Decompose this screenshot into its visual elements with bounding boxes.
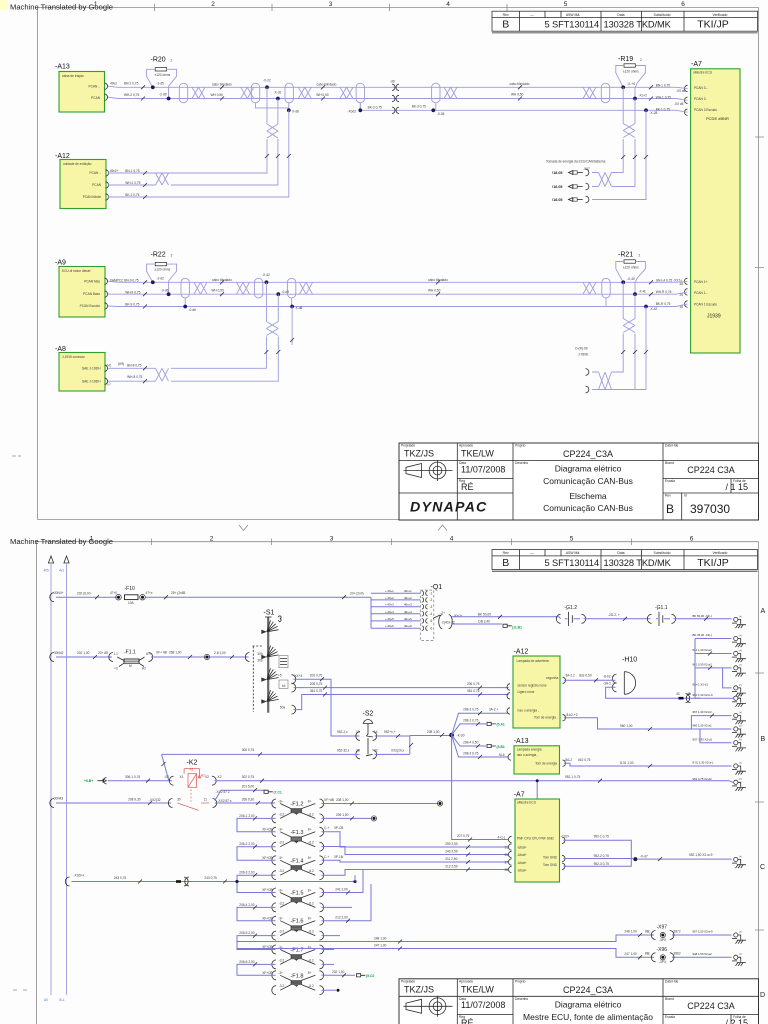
- ground terminal 766: [734, 764, 738, 768]
- svg-text:nao o anergia ,: nao o anergia ,: [518, 709, 539, 713]
- fuse F1.3: [272, 827, 324, 851]
- svg-text:-F1.8: -F1.8: [290, 973, 303, 979]
- svg-text:D: D: [760, 992, 765, 999]
- svg-text:-1: -1: [430, 591, 433, 595]
- svg-text:ASW Mã.: ASW Mã.: [566, 551, 580, 555]
- svg-text:SAE J-1939-/: SAE J-1939-/: [82, 367, 101, 371]
- svg-text:-R19: -R19: [618, 56, 633, 63]
- svg-text:3A-2.2: 3A-2.2: [565, 674, 575, 678]
- svg-text:(5.A1: (5.A1: [497, 723, 505, 727]
- svg-text:PCAN ..: PCAN ..: [88, 85, 100, 89]
- svg-text:-X2: -X2: [217, 775, 222, 779]
- svg-text:130328 TKD/MK: 130328 TKD/MK: [604, 558, 672, 568]
- wire S1-202 to S2: [294, 679, 360, 736]
- svg-text:-XX2 87 2: -XX2 87 2: [216, 790, 230, 794]
- wire R19 drop H: [612, 87, 623, 172]
- svg-text:/ 1 15: / 1 15: [725, 482, 748, 492]
- svg-text:30N42: 30N42: [54, 651, 64, 655]
- svg-text:208-3 0,75: 208-3 0,75: [463, 752, 478, 756]
- svg-text:405: 405: [44, 569, 50, 573]
- svg-text:Tom de energia .: Tom de energia .: [534, 716, 558, 720]
- svg-text:948 1,50 X2-a2: 948 1,50 X2-a2: [693, 952, 713, 956]
- svg-text:1: 1: [94, 1, 98, 8]
- wire F10 to Q1: [145, 596, 371, 598]
- svg-text:+3: +3: [114, 667, 118, 671]
- ground terminal 620: [734, 617, 738, 621]
- svg-text:CP224 C3A: CP224 C3A: [687, 465, 735, 475]
- svg-text:caixa de traçáo: caixa de traçáo: [62, 74, 84, 78]
- svg-text:-2-d9: -2-d9: [159, 93, 167, 97]
- svg-text:47+x: 47+x: [146, 591, 153, 595]
- wire F1.1 to S1: [151, 656, 249, 658]
- ground terminal 654: [734, 651, 738, 655]
- svg-text:WH-2 0,75: WH-2 0,75: [124, 93, 139, 97]
- ground terminal 698: [734, 696, 738, 700]
- svg-text:+5: +5: [278, 674, 282, 678]
- inline connector X2 pass-through: [392, 84, 399, 113]
- svg-text:-3.2: -3.2: [279, 869, 285, 873]
- svg-text:WH-R 0,76: WH-R 0,76: [656, 290, 672, 294]
- fuse F1.7: [272, 945, 324, 969]
- svg-text:CP224_C3A: CP224_C3A: [563, 449, 613, 459]
- svg-text:XF+ 4B: XF+ 4B: [156, 651, 167, 655]
- wire H10 return to ground: [606, 687, 733, 698]
- svg-text:206-5 2,00: 206-5 2,00: [239, 931, 254, 935]
- wire 243 feeder: [65, 877, 69, 886]
- cable sleeve 3 with shield tail: [356, 83, 364, 103]
- svg-text:(x): (x): [739, 712, 742, 714]
- svg-text:TKZ/JS: TKZ/JS: [404, 984, 434, 994]
- wire K2 coil out (302): [215, 781, 734, 799]
- svg-text:268 1,00: 268 1,00: [169, 651, 182, 655]
- svg-text:-8-b2-+2: -8-b2-+2: [565, 713, 577, 717]
- svg-text:-3.2: -3.2: [279, 901, 285, 905]
- svg-text:40x+6: 40x+6: [404, 624, 412, 628]
- svg-text:Diagrama elétrico: Diagrama elétrico: [555, 464, 622, 474]
- svg-text:TKI/JP: TKI/JP: [697, 19, 729, 31]
- wire F1.2 outputs: [322, 804, 439, 819]
- ground terminal 638: [734, 636, 738, 640]
- svg-text:-X-42: -X-42: [650, 307, 658, 311]
- wire J1939 shield: [108, 304, 688, 307]
- wire F1.3 outputs to A7: [322, 832, 353, 855]
- wire G1.2 to G1.1: [584, 618, 651, 620]
- svg-text:BN-2 0,75: BN-2 0,75: [124, 81, 139, 85]
- svg-text:GN-L4 0,75 -XX7+: GN-L4 0,75 -XX7+: [656, 279, 682, 283]
- battery G1.2: [556, 605, 585, 626]
- svg-text:TKE/LW: TKE/LW: [461, 984, 494, 994]
- svg-text:-3PX: -3PX: [659, 938, 667, 942]
- svg-text:Aprovado: Aprovado: [459, 979, 473, 983]
- svg-text:-Xc+2: -Xc+2: [639, 94, 648, 98]
- wire CAN1-H bus: [108, 86, 688, 88]
- revision header table page 1: [492, 11, 758, 33]
- svg-text:sensor registro none: sensor registro none: [518, 683, 547, 687]
- wire R21 drop H: [612, 282, 623, 372]
- ECU A7 (J1939 gateway): [679, 61, 740, 353]
- vertical twist A8 drop: [266, 322, 278, 336]
- svg-text:PCAN Mas: PCAN Mas: [84, 279, 100, 283]
- svg-text:WH-9 0,75: WH-9 0,75: [125, 290, 140, 294]
- ref 7.C1: [264, 790, 273, 793]
- node 2-d2 junction: [151, 280, 155, 284]
- svg-text:3672: 3672: [674, 929, 681, 933]
- svg-text:-XG5+x: -XG5+x: [74, 873, 85, 877]
- svg-text:-0-d6: -0-d6: [189, 308, 197, 312]
- svg-text:-2-d2: -2-d2: [156, 276, 164, 280]
- svg-text:40x+4: 40x+4: [404, 610, 412, 614]
- twist bus2 seg1: [194, 282, 207, 294]
- ground terminal 688: [734, 686, 738, 690]
- svg-text:-A8: -A8: [55, 346, 66, 353]
- wire node to A13 pin: [452, 735, 509, 757]
- twist bus2 seg2: [237, 282, 250, 294]
- Dynapac roller logo: [404, 996, 453, 1017]
- svg-text:A0: A0: [44, 998, 48, 1002]
- svg-text:(x): (x): [739, 635, 742, 637]
- svg-text:unidade de exibição: unidade de exibição: [63, 162, 92, 166]
- svg-text:!18.05: !18.05: [552, 171, 562, 175]
- wire 30N43 row (K2 contact): [50, 799, 54, 808]
- svg-text:Projeto: Projeto: [515, 444, 526, 448]
- svg-text:952-1 0,75: 952-1 0,75: [594, 834, 609, 838]
- svg-text:WH 0,50: WH 0,50: [511, 93, 524, 97]
- svg-text:-3.2: -3.2: [279, 958, 285, 962]
- svg-text:(x): (x): [739, 931, 742, 933]
- svg-text:-H10: -H10: [622, 657, 637, 664]
- svg-text:(11.B1: (11.B1: [512, 625, 522, 629]
- svg-text:-6.2: -6.2: [308, 958, 314, 962]
- node X-22 on CAN1-H: [265, 85, 269, 89]
- ECU A13 power module: [508, 738, 566, 774]
- node X-42 junction H: [265, 280, 269, 284]
- svg-text:+.40+1: +.40+1: [385, 589, 394, 593]
- svg-text:C-+: C-+: [324, 826, 329, 830]
- svg-text:4+1-(: 4+1-(: [497, 836, 505, 840]
- wire shield drop bus2: [291, 307, 293, 346]
- bus riser 405: [50, 564, 52, 995]
- svg-text:-6.2: -6.2: [308, 869, 314, 873]
- switch S1 (ignition): [245, 610, 302, 715]
- svg-text:cabo blindado: cabo blindado: [428, 278, 448, 282]
- node X+2 junction: [633, 97, 637, 101]
- svg-text:-4: -4: [430, 612, 433, 616]
- svg-text:-R22: -R22: [151, 252, 166, 259]
- svg-text:-X-4L: -X-4L: [639, 289, 647, 293]
- svg-text:(x): (x): [739, 762, 742, 764]
- fuse F1.1: [109, 650, 153, 671]
- svg-text:-X-d7: -X-d7: [640, 854, 648, 858]
- svg-text:952-1 0,75: 952-1 0,75: [565, 775, 580, 779]
- svg-text:3862: 3862: [674, 952, 681, 956]
- Dynapac roller logo: [404, 460, 453, 481]
- svg-text:3: 3: [171, 254, 173, 258]
- svg-text:243 0,75: 243 0,75: [204, 876, 217, 880]
- svg-text:-3.2: -3.2: [279, 812, 285, 816]
- svg-text:PCAN Escudo: PCAN Escudo: [80, 304, 101, 308]
- takeoff stub row1: [586, 369, 589, 376]
- svg-text:248 1,00: 248 1,00: [624, 930, 637, 934]
- wire node to ref 5.B1: [452, 735, 486, 746]
- fuse F1.8: [272, 971, 324, 995]
- svg-text:37: 37: [505, 860, 509, 864]
- svg-text:-A13: -A13: [55, 64, 70, 71]
- svg-text:9X7 1,30 X2-d1: 9X7 1,30 X2-d1: [693, 737, 713, 741]
- svg-text:206 0,75: 206 0,75: [310, 682, 323, 686]
- ECU A8: [55, 346, 111, 391]
- svg-text:B: B: [502, 19, 509, 31]
- svg-text:+.40+6: +.40+6: [385, 624, 394, 628]
- ECU A7 master: [508, 791, 569, 882]
- svg-text:-2D-2- +: -2D-2- +: [608, 613, 620, 617]
- switch Q1 (battery disconnect): [420, 584, 442, 641]
- svg-text:/ 2 15: / 2 15: [725, 1018, 748, 1024]
- wire 248 to X97: [237, 935, 732, 942]
- svg-text:-d9: -d9: [390, 80, 395, 84]
- cable sleeve connector (A13 segment): [179, 83, 187, 103]
- svg-text:38: 38: [505, 868, 509, 872]
- svg-text:-3+: -3+: [278, 888, 283, 892]
- svg-text:(x): (x): [739, 695, 742, 697]
- svg-text:cabo blindado: cabo blindado: [510, 82, 530, 86]
- horn H10: [612, 657, 637, 695]
- svg-text:(H): (H): [107, 364, 111, 368]
- revision header table page 2: [492, 550, 758, 572]
- svg-text:2: 2: [210, 536, 214, 543]
- svg-text:-0-d6: -0-d6: [161, 289, 169, 293]
- page 1 sheet frame: [0, 0, 764, 520]
- svg-text:±120 ohms: ±120 ohms: [155, 73, 171, 77]
- svg-text:211 2,50: 211 2,50: [445, 857, 457, 861]
- fuse F10: [110, 586, 153, 605]
- svg-text:-A7: -A7: [514, 791, 525, 798]
- svg-text:Verificado: Verificado: [713, 551, 728, 555]
- svg-text:-X-22: -X-22: [263, 79, 271, 83]
- svg-text:361 0,76: 361 0,76: [467, 689, 480, 693]
- svg-text:50a: 50a: [280, 706, 286, 710]
- node X-d8 shield bus2: [290, 305, 294, 309]
- svg-text:DYNAPAC: DYNAPAC: [410, 500, 488, 516]
- svg-text:±120 ohms: ±120 ohms: [155, 268, 171, 272]
- wires Q1 inputs: [371, 593, 420, 628]
- svg-text:(L): (L): [107, 382, 111, 386]
- svg-text:49v2+: 49v2+: [110, 169, 119, 173]
- cable sleeve bus2 seg3 with tail: [287, 278, 295, 298]
- svg-text:48: 48: [687, 692, 691, 696]
- node junction L: [167, 292, 171, 296]
- svg-text:TKI/JP: TKI/JP: [697, 557, 729, 569]
- svg-text:-6.2: -6.2: [308, 984, 314, 988]
- svg-text:WH 0,50: WH 0,50: [211, 289, 224, 293]
- svg-text:247 1,00: 247 1,00: [374, 944, 387, 948]
- svg-text:X-d8: X-d8: [292, 109, 299, 113]
- svg-text:BK-3 0,75: BK-3 0,75: [412, 105, 426, 109]
- ground terminal 668: [734, 666, 738, 670]
- svg-text:BK-R 0,75: BK-R 0,75: [656, 302, 671, 306]
- svg-text:#10 0,75: #10 0,75: [578, 758, 591, 762]
- svg-text:-A13: -A13: [514, 738, 529, 745]
- ground terminal 716: [734, 714, 738, 718]
- svg-text:-6.2: -6.2: [308, 930, 314, 934]
- svg-text:243 0,75: 243 0,75: [114, 876, 127, 880]
- svg-text:397030: 397030: [690, 502, 730, 516]
- battery G1.1: [647, 605, 675, 626]
- svg-text:X-d8: X-d8: [296, 306, 303, 310]
- fuse F1.4: [272, 856, 324, 880]
- svg-text:!18.05: !18.05: [552, 185, 562, 189]
- svg-text:40x+5: 40x+5: [404, 617, 412, 621]
- cable sleeve 5 (R19 side): [601, 83, 609, 103]
- svg-text:206-2 2,00: 206-2 2,00: [239, 842, 254, 846]
- svg-text:3: 3: [329, 1, 333, 8]
- svg-text:Rev: Rev: [503, 551, 509, 555]
- svg-text:957 1,30 X2-b2: 957 1,30 X2-b2: [693, 710, 713, 714]
- svg-text:WH 0,50: WH 0,50: [211, 93, 224, 97]
- svg-text:(x): (x): [739, 779, 742, 781]
- svg-text:Machine Translated by Google: Machine Translated by Google: [10, 3, 113, 12]
- wire J1939-L drop to A8: [171, 294, 278, 381]
- wire node to A7 pin 1: [452, 735, 509, 839]
- svg-text:(x): (x): [739, 650, 742, 652]
- svg-text:C-+: C-+: [324, 855, 329, 859]
- wire 30N4+ row (F10 feed): [50, 593, 54, 602]
- node X-40 junction: [621, 280, 625, 284]
- ground terminal 957: [734, 955, 738, 959]
- svg-text:960 1,30 X2-b-9: 960 1,30 X2-b-9: [693, 693, 714, 697]
- svg-text:-X-42: -X-42: [262, 273, 270, 277]
- svg-text:208-4 0,50: 208-4 0,50: [463, 741, 478, 745]
- svg-text:b4: b4: [282, 684, 286, 688]
- twisted pair marks takeoff: [599, 173, 612, 187]
- node K-30 distribution: [449, 733, 454, 738]
- wire R21 drop shield: [592, 307, 646, 390]
- wire node to ref 5.A1: [452, 724, 486, 735]
- node X-4L junction: [633, 292, 637, 296]
- resistor R21 (120 ohm terminator): [616, 252, 646, 295]
- wire F1.4 outputs to A7: [322, 860, 353, 875]
- svg-text:Rev: Rev: [503, 13, 509, 17]
- svg-text:X2: X2: [205, 775, 209, 779]
- svg-text:PCAN 3-..: PCAN 3-..: [694, 86, 708, 90]
- svg-text:uMestre ECU: uMestre ECU: [517, 801, 537, 805]
- svg-text:201 5,00: 201 5,00: [242, 785, 255, 789]
- K2 contact blade (red): [168, 799, 172, 808]
- svg-text:212 2,50: 212 2,50: [445, 865, 458, 869]
- resistor R22 (120 ohm terminator): [147, 252, 177, 295]
- svg-text:30: 30: [177, 798, 181, 802]
- svg-text:M: M: [129, 664, 132, 668]
- svg-text:-X07: -X07: [583, 167, 590, 171]
- svg-text:2: 2: [640, 58, 642, 62]
- node X-d5 / X-d9 junctions under R20: [151, 85, 155, 89]
- svg-text:8+: 8+: [308, 971, 312, 975]
- column numbers page 1: [94, 1, 685, 8]
- svg-text:PCAN: PCAN: [91, 96, 101, 100]
- cable sleeve 4: [432, 83, 440, 103]
- svg-text:-F1.1: -F1.1: [124, 650, 136, 656]
- relay K2 coil (red): [184, 760, 205, 802]
- wire node to A12 pin3: [452, 713, 509, 735]
- svg-text:Escala: Escala: [665, 479, 675, 483]
- svg-text:-3.2: -3.2: [279, 984, 285, 988]
- svg-text:WH 0,50: WH 0,50: [428, 288, 441, 292]
- svg-text:Projeto: Projeto: [515, 979, 526, 983]
- svg-text:208-1 0,75: 208-1 0,75: [463, 719, 478, 723]
- svg-text:952-2 0,75: 952-2 0,75: [594, 854, 609, 858]
- svg-text:-F1.5: -F1.5: [290, 891, 303, 897]
- svg-text:-A12: -A12: [514, 649, 529, 656]
- svg-text:-X96: -X96: [657, 947, 668, 953]
- wire R19 drop shield: [592, 110, 646, 199]
- svg-text:247 1,00: 247 1,00: [624, 952, 637, 956]
- svg-text:8+: 8+: [308, 856, 312, 860]
- svg-text:cabo blindado: cabo blindado: [212, 278, 232, 282]
- svg-text:208 1,00: 208 1,00: [427, 730, 440, 734]
- svg-text:Elschema: Elschema: [569, 491, 607, 501]
- svg-text:Comunicação CAN-Bus: Comunicação CAN-Bus: [543, 476, 633, 486]
- svg-text:-F1.3: -F1.3: [290, 830, 303, 836]
- row letters page 2: [760, 608, 766, 999]
- svg-text:B: B: [666, 502, 674, 516]
- svg-text:+.40+4: +.40+4: [385, 610, 394, 614]
- wires A7 supply inputs: [352, 847, 509, 870]
- node 0-d8 junction L: [276, 292, 280, 296]
- svg-text:8+: 8+: [308, 917, 312, 921]
- svg-text:J-7808: J-7808: [578, 353, 588, 357]
- svg-text:-S1: -S1: [264, 610, 275, 617]
- svg-text:+.40+5: +.40+5: [385, 617, 394, 621]
- svg-text:47+0: 47+0: [110, 591, 117, 595]
- svg-text:XF+CB: XF+CB: [262, 827, 272, 831]
- svg-text:-X2: -X2: [164, 775, 169, 779]
- Q1 output contact: [439, 615, 453, 629]
- svg-text:PCAN 3.: PCAN 3.: [694, 97, 707, 101]
- svg-text:BK 50,00 -X2(-): BK 50,00 -X2(-): [693, 614, 712, 618]
- svg-text:952+x,+: 952+x,+: [384, 730, 396, 734]
- svg-text:PCAN ..: PCAN ..: [89, 171, 101, 175]
- ground terminal 935: [734, 933, 738, 937]
- svg-text:Desenho: Desenho: [515, 461, 528, 465]
- svg-text:Brand: Brand: [665, 997, 674, 1001]
- twisted pair marks seg2: [241, 87, 254, 98]
- svg-text:957 1,50 X2-a-9: 957 1,50 X2-a-9: [693, 930, 714, 934]
- svg-text:Brand: Brand: [665, 461, 674, 465]
- svg-text:-A9: -A9: [55, 260, 66, 267]
- svg-text:6: 6: [681, 1, 685, 8]
- svg-text:XF+CB: XF+CB: [262, 971, 272, 975]
- wire K2 out to 201/208: [215, 790, 275, 803]
- svg-text:3: 3: [330, 536, 334, 543]
- svg-text:A2: A2: [142, 667, 146, 671]
- svg-text:XAMPCC BN-9 0,75: XAMPCC BN-9 0,75: [110, 279, 139, 283]
- svg-text:BN-8 0,75: BN-8 0,75: [127, 363, 142, 367]
- svg-text:11: 11: [204, 797, 208, 801]
- svg-text:Lampada energia: Lampada energia: [517, 748, 542, 752]
- svg-text:241 2,00: 241 2,00: [335, 888, 348, 892]
- svg-text:Data: Data: [617, 13, 624, 17]
- svg-text:+: +: [566, 608, 568, 612]
- svg-text:PCAN 3 Escudo: PCAN 3 Escudo: [694, 108, 717, 112]
- svg-text:2-8 1,00: 2-8 1,00: [214, 651, 226, 655]
- svg-text:Tomada de energia da ECU/CAN/S: Tomada de energia da ECU/CAN/Sistema: [546, 160, 606, 164]
- svg-text:PCAN: PCAN: [92, 183, 102, 187]
- svg-text:206-4 2,00: 206-4 2,00: [239, 903, 254, 907]
- splice junction row2: [206, 656, 209, 659]
- svg-text:8+: 8+: [308, 888, 312, 892]
- cable sleeve bus2 seg4 (R21 side): [602, 278, 610, 298]
- svg-text:-Ubat+: -Ubat+: [517, 845, 527, 849]
- svg-text:-X0 d5: -X0 d5: [674, 102, 684, 106]
